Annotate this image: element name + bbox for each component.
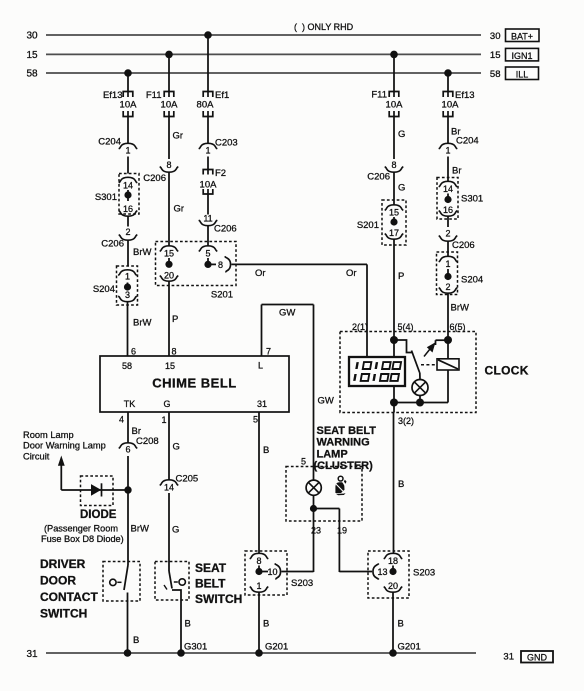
svg-text:31: 31 xyxy=(26,649,38,660)
svg-text:Br: Br xyxy=(452,166,462,177)
svg-text:15: 15 xyxy=(165,361,175,371)
svg-text:CHIME BELL: CHIME BELL xyxy=(152,376,236,391)
svg-text:18: 18 xyxy=(388,556,398,566)
svg-text:15: 15 xyxy=(389,208,399,218)
svg-text:P: P xyxy=(398,271,404,282)
svg-text:3: 3 xyxy=(125,290,130,300)
svg-text:Fuse Box D8 Diode): Fuse Box D8 Diode) xyxy=(41,534,124,544)
svg-text:S201: S201 xyxy=(357,220,379,231)
svg-text:15: 15 xyxy=(26,50,38,61)
svg-text:S203: S203 xyxy=(291,578,313,589)
svg-text:S301: S301 xyxy=(95,192,117,203)
svg-text:10A: 10A xyxy=(386,100,404,111)
svg-text:C205: C205 xyxy=(176,474,199,485)
svg-text:58: 58 xyxy=(26,69,38,80)
svg-text:17: 17 xyxy=(389,228,399,238)
svg-text:58: 58 xyxy=(490,69,501,80)
svg-text:2: 2 xyxy=(125,227,130,237)
svg-text:2: 2 xyxy=(445,229,450,239)
svg-text:19: 19 xyxy=(337,526,347,536)
svg-text:5: 5 xyxy=(205,249,210,259)
svg-text:8: 8 xyxy=(391,160,396,170)
svg-text:30: 30 xyxy=(490,31,501,42)
svg-text:C206: C206 xyxy=(143,173,166,184)
svg-text:CONTACT: CONTACT xyxy=(40,590,98,604)
svg-text:8: 8 xyxy=(256,556,261,566)
svg-text:Room Lamp: Room Lamp xyxy=(23,430,74,440)
svg-text:GW: GW xyxy=(318,396,334,407)
svg-text:10A: 10A xyxy=(200,180,218,191)
svg-text:BrW: BrW xyxy=(133,318,152,329)
svg-text:4: 4 xyxy=(119,415,124,425)
svg-text:G: G xyxy=(173,442,180,453)
svg-text:SWITCH: SWITCH xyxy=(195,592,242,606)
svg-text:23: 23 xyxy=(311,526,321,536)
svg-text:8: 8 xyxy=(218,260,223,270)
svg-text:S204: S204 xyxy=(93,284,115,295)
svg-text:31: 31 xyxy=(503,652,514,663)
svg-text:P: P xyxy=(172,314,178,325)
svg-text:BrW: BrW xyxy=(131,524,150,535)
svg-text:G201: G201 xyxy=(265,642,288,653)
svg-text:16: 16 xyxy=(123,204,133,214)
svg-text:C208: C208 xyxy=(136,436,159,447)
svg-text:S301: S301 xyxy=(461,194,483,205)
svg-text:7: 7 xyxy=(266,347,271,357)
svg-text:CLOCK: CLOCK xyxy=(485,364,529,378)
svg-text:58: 58 xyxy=(122,361,132,371)
svg-text:SEAT: SEAT xyxy=(195,561,227,575)
svg-text:8: 8 xyxy=(172,347,177,357)
svg-text:8: 8 xyxy=(166,160,171,170)
svg-text:6: 6 xyxy=(131,347,136,357)
svg-text:1: 1 xyxy=(256,581,261,591)
svg-text:Circuit: Circuit xyxy=(23,451,50,461)
svg-text:S204: S204 xyxy=(461,275,483,286)
svg-text:5: 5 xyxy=(253,415,258,425)
svg-text:TK: TK xyxy=(124,399,136,409)
svg-text:B: B xyxy=(398,619,404,630)
svg-text:10A: 10A xyxy=(161,100,179,111)
svg-text:B: B xyxy=(263,619,269,630)
svg-text:B: B xyxy=(398,479,404,490)
svg-text:SEAT BELT: SEAT BELT xyxy=(317,425,377,437)
svg-text:2: 2 xyxy=(445,282,450,292)
svg-text:14: 14 xyxy=(164,483,174,493)
svg-text:15: 15 xyxy=(490,50,501,61)
svg-text:G301: G301 xyxy=(184,642,207,653)
svg-text:3(2): 3(2) xyxy=(398,416,414,426)
svg-text:20: 20 xyxy=(164,271,174,281)
svg-text:Or: Or xyxy=(255,268,266,279)
svg-text:G201: G201 xyxy=(398,642,421,653)
svg-text:(Passenger Room: (Passenger Room xyxy=(44,524,118,534)
svg-text:SWITCH: SWITCH xyxy=(40,607,87,621)
svg-text:6(5): 6(5) xyxy=(450,322,466,332)
svg-text:ILL: ILL xyxy=(516,70,529,80)
svg-text:Gr: Gr xyxy=(173,131,184,142)
svg-text:13: 13 xyxy=(377,567,387,577)
svg-text:C204: C204 xyxy=(456,136,479,147)
svg-text:B: B xyxy=(133,635,139,646)
svg-text:IGN1: IGN1 xyxy=(511,51,532,61)
svg-text:LAMP: LAMP xyxy=(317,448,348,460)
svg-text:C203: C203 xyxy=(215,138,238,149)
svg-text:BrW: BrW xyxy=(133,247,152,258)
svg-text:C206: C206 xyxy=(367,172,390,183)
svg-text:1: 1 xyxy=(125,146,130,156)
svg-text:C206: C206 xyxy=(101,239,124,250)
svg-text:10: 10 xyxy=(267,567,277,577)
svg-text:L: L xyxy=(258,361,263,371)
svg-text:Or: Or xyxy=(346,268,357,279)
svg-text:( ) ONLY RHD: ( ) ONLY RHD xyxy=(294,22,354,32)
svg-text:1: 1 xyxy=(445,146,450,156)
svg-text:WARNING: WARNING xyxy=(317,437,370,449)
svg-text:1: 1 xyxy=(445,259,450,269)
svg-text:GND: GND xyxy=(527,653,548,663)
svg-text:31: 31 xyxy=(257,399,267,409)
svg-text:2(1): 2(1) xyxy=(352,322,368,332)
svg-text:BAT+: BAT+ xyxy=(511,32,533,42)
svg-text:Door Warning Lamp: Door Warning Lamp xyxy=(23,441,106,451)
svg-text:1: 1 xyxy=(205,146,210,156)
svg-text:C204: C204 xyxy=(98,137,121,148)
svg-text:10A: 10A xyxy=(120,100,138,111)
svg-text:B: B xyxy=(185,619,191,630)
svg-text:11: 11 xyxy=(203,214,212,224)
svg-text:C206: C206 xyxy=(214,224,237,235)
svg-text:5: 5 xyxy=(301,457,306,467)
svg-text:14: 14 xyxy=(123,181,133,191)
svg-text:S201: S201 xyxy=(211,290,233,301)
svg-text:G: G xyxy=(163,399,170,409)
svg-text:15: 15 xyxy=(164,249,174,259)
svg-text:BELT: BELT xyxy=(195,577,226,591)
svg-text:DRIVER: DRIVER xyxy=(40,557,86,571)
svg-text:F11: F11 xyxy=(146,90,162,101)
svg-text:Ef1: Ef1 xyxy=(215,90,229,101)
svg-text:14: 14 xyxy=(443,184,453,194)
svg-text:G: G xyxy=(172,525,179,536)
svg-text:Gr: Gr xyxy=(174,204,185,215)
svg-text:B: B xyxy=(263,445,269,456)
svg-text:S203: S203 xyxy=(413,568,435,579)
svg-text:10A: 10A xyxy=(442,100,460,111)
svg-text:1: 1 xyxy=(161,415,166,425)
svg-text:30: 30 xyxy=(26,31,38,42)
svg-text:BrW: BrW xyxy=(451,303,470,314)
svg-text:C206: C206 xyxy=(452,240,475,251)
svg-text:G: G xyxy=(398,183,405,194)
svg-text:F2: F2 xyxy=(215,168,226,179)
svg-text:20: 20 xyxy=(388,581,398,591)
svg-text:16: 16 xyxy=(443,205,453,215)
svg-text:GW: GW xyxy=(279,308,295,319)
svg-text:DOOR: DOOR xyxy=(40,574,76,588)
svg-text:G: G xyxy=(398,129,405,140)
svg-text:5(4): 5(4) xyxy=(398,322,414,332)
svg-text:6: 6 xyxy=(125,445,130,455)
svg-text:1: 1 xyxy=(125,272,130,282)
svg-text:80A: 80A xyxy=(197,100,215,111)
svg-text:DIODE: DIODE xyxy=(80,509,117,521)
